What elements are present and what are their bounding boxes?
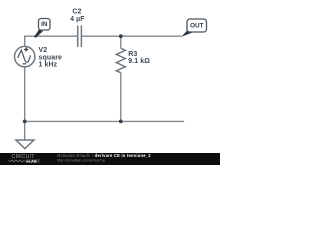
svg-text:▸LAB: ▸LAB xyxy=(26,159,37,164)
svg-text:9.1 kΩ: 9.1 kΩ xyxy=(128,58,150,65)
capacitor C2 xyxy=(70,8,85,47)
node OUT flag box xyxy=(187,19,207,32)
svg-text:4 µF: 4 µF xyxy=(70,16,85,23)
banner xyxy=(0,153,220,165)
svg-text:square: square xyxy=(39,54,63,61)
voltage source V2 plus terminal mark xyxy=(24,49,28,51)
voltage source V2 minus terminal mark xyxy=(23,63,26,65)
node OUT flag pointer xyxy=(181,30,194,37)
capacitor C2 left plate xyxy=(77,26,79,48)
node junction dot bottom-left xyxy=(23,120,27,124)
node OUT flag xyxy=(181,19,206,37)
svg-text:V2: V2 xyxy=(39,47,48,54)
svg-text:1 kHz: 1 kHz xyxy=(39,62,58,69)
resistor R3 zigzag body xyxy=(116,48,125,72)
svg-text:R3: R3 xyxy=(128,51,137,58)
wire capacitor to OUT xyxy=(81,35,181,37)
resistor R3 xyxy=(116,48,150,72)
svg-text:http://circuitlab.com/c7ey71e: http://circuitlab.com/c7ey71e xyxy=(57,158,105,162)
voltage source V2 waveform glyph xyxy=(18,50,31,62)
wire top-left from source to capacitor xyxy=(25,36,78,46)
wire source bottom down to ground xyxy=(24,67,26,140)
voltage source V2 xyxy=(15,46,63,68)
logo LAB box xyxy=(26,159,40,163)
wire resistor bottom lead xyxy=(120,73,122,122)
wire bottom horizontal xyxy=(25,120,185,122)
node junction dot top (wire to R3) xyxy=(119,34,123,38)
wire resistor top lead xyxy=(120,36,122,48)
node IN flag xyxy=(34,19,50,38)
svg-text:IN: IN xyxy=(41,21,48,28)
node IN flag pointer xyxy=(34,29,43,38)
svg-text:OUT: OUT xyxy=(190,23,204,30)
voltage source V2 circle body xyxy=(15,46,35,66)
capacitor C2 right plate xyxy=(80,26,82,48)
logo resistor squiggle xyxy=(8,160,25,162)
node IN flag box xyxy=(39,19,51,31)
ground xyxy=(16,140,34,149)
node junction dot bottom-right xyxy=(119,120,123,124)
svg-text:Octavian Enachi / derivare CE: Octavian Enachi / derivare CE in tensiun… xyxy=(57,153,151,158)
svg-text:C2: C2 xyxy=(72,8,81,15)
